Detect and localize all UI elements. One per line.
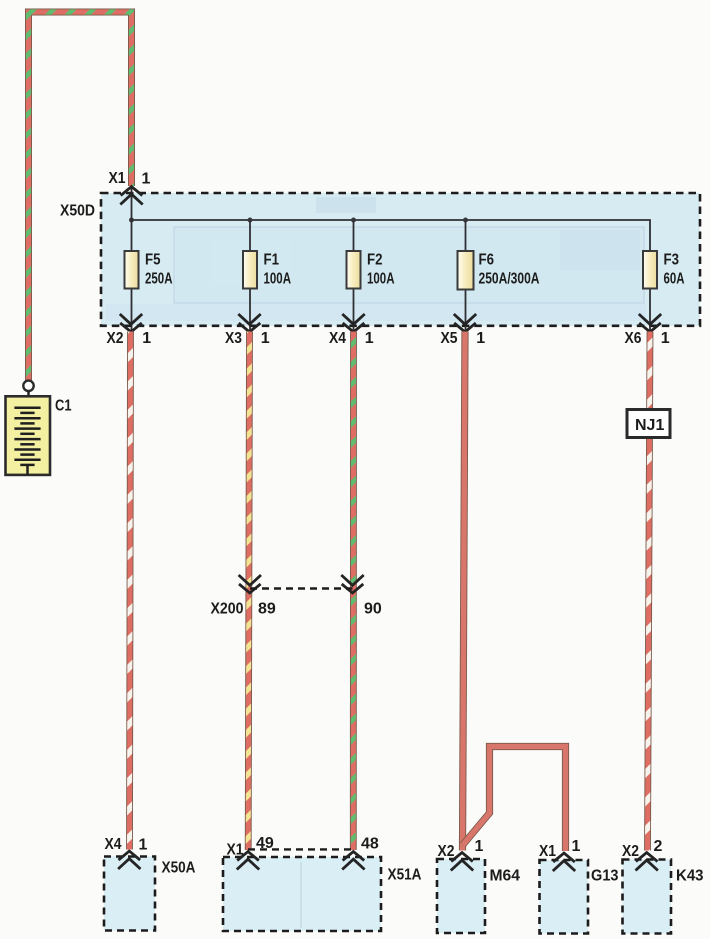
node dot F5 (129, 218, 134, 223)
svg-text:1: 1 (476, 330, 485, 347)
svg-text:90: 90 (364, 601, 382, 618)
connector X200 pin 90 (341, 575, 363, 593)
connector X3 pin 1 (fuse box bottom) (238, 314, 260, 332)
svg-text:49: 49 (256, 835, 274, 852)
svg-text:M64: M64 (490, 868, 521, 885)
svg-text:F5: F5 (145, 252, 161, 269)
svg-text:X200: X200 (211, 601, 244, 618)
label box NJ1 (627, 410, 670, 438)
svg-text:1: 1 (261, 330, 270, 347)
connector box M64 (437, 859, 485, 933)
svg-text:F6: F6 (479, 252, 495, 269)
svg-text:48: 48 (361, 836, 379, 853)
svg-text:89: 89 (258, 601, 276, 618)
fuse F2 (347, 220, 395, 331)
X51A inner divider (faint) (300, 862, 302, 928)
node dot F6 (463, 218, 468, 223)
svg-text:2: 2 (654, 838, 663, 855)
svg-text:G13: G13 (591, 868, 619, 885)
battery terminal lead (27, 391, 29, 408)
svg-text:1: 1 (475, 838, 484, 855)
svg-text:1: 1 (365, 330, 374, 347)
pin line X1 to bus (131, 188, 133, 220)
svg-text:F3: F3 (664, 252, 680, 269)
svg-text:X6: X6 (625, 330, 642, 347)
svg-text:X4: X4 (329, 330, 346, 347)
wire X2 to X50A (red/white) (130, 332, 131, 850)
connector X1 pin 1 (top of fuse box) (120, 187, 142, 205)
wire X6 to K43 (red/white) (648, 332, 651, 851)
ghost image inside fuse box (106, 197, 646, 321)
connector box X51A (223, 857, 381, 931)
connector X5 pin 1 (fuse box bottom) (454, 314, 476, 332)
svg-text:F1: F1 (264, 252, 280, 269)
node dot F2 (351, 218, 356, 223)
svg-text:X50D: X50D (60, 203, 95, 220)
svg-text:100A: 100A (367, 271, 395, 288)
wire branch M64 to G13 (solid red) (463, 747, 566, 852)
connector box K43 (623, 860, 672, 934)
svg-text:250A/300A: 250A/300A (479, 271, 540, 288)
X200 link dashed line (250, 587, 353, 589)
fuse F6 (458, 220, 540, 331)
battery terminal circle (23, 381, 33, 391)
svg-text:X51A: X51A (388, 867, 422, 884)
svg-text:X50A: X50A (162, 860, 196, 877)
bus line (132, 220, 651, 251)
fuse F1 (243, 220, 291, 331)
svg-text:X3: X3 (225, 330, 242, 347)
svg-text:X2: X2 (438, 843, 455, 860)
svg-text:100A: 100A (264, 271, 292, 288)
svg-text:X2: X2 (107, 330, 124, 347)
svg-text:X1: X1 (227, 842, 244, 859)
svg-text:1: 1 (142, 171, 151, 188)
fuse F3 (643, 251, 685, 331)
connector X6 pin 1 (fuse box bottom) (639, 314, 661, 332)
svg-text:1: 1 (661, 330, 670, 347)
connector X2 pin 1 (fuse box bottom) (120, 314, 142, 332)
battery C1 (6, 396, 51, 475)
connector X200 pin 89 (239, 575, 261, 593)
svg-text:250A: 250A (145, 271, 173, 288)
node dot F1 (248, 218, 253, 223)
svg-text:X5: X5 (441, 330, 458, 347)
svg-text:60A: 60A (664, 271, 685, 288)
svg-text:X1: X1 (539, 843, 556, 860)
svg-text:1: 1 (139, 837, 148, 854)
connector box X50A (104, 857, 155, 931)
svg-text:X4: X4 (105, 836, 122, 853)
X51A pins link dashed line (248, 848, 353, 850)
wire X4 to X51A pin 48 (red/green) (350, 332, 357, 851)
svg-text:1: 1 (572, 838, 581, 855)
wire battery-to-X1 (red/green) (29, 12, 132, 381)
fuse F5 (125, 220, 173, 331)
svg-text:1: 1 (142, 330, 151, 347)
svg-text:X1: X1 (109, 170, 126, 187)
svg-text:X2: X2 (622, 843, 639, 860)
svg-text:C1: C1 (55, 398, 72, 415)
svg-text:F2: F2 (367, 252, 383, 269)
wire X5 to M64 (solid red) (463, 332, 466, 851)
fuse box X50D (101, 193, 700, 326)
wire X3 to X51A pin 49 (red/yellow) (248, 332, 249, 851)
connector box G13 (540, 860, 589, 934)
svg-text:K43: K43 (676, 868, 704, 885)
connector X4 pin 1 (fuse box bottom) (342, 314, 364, 332)
svg-text:NJ1: NJ1 (635, 417, 664, 434)
